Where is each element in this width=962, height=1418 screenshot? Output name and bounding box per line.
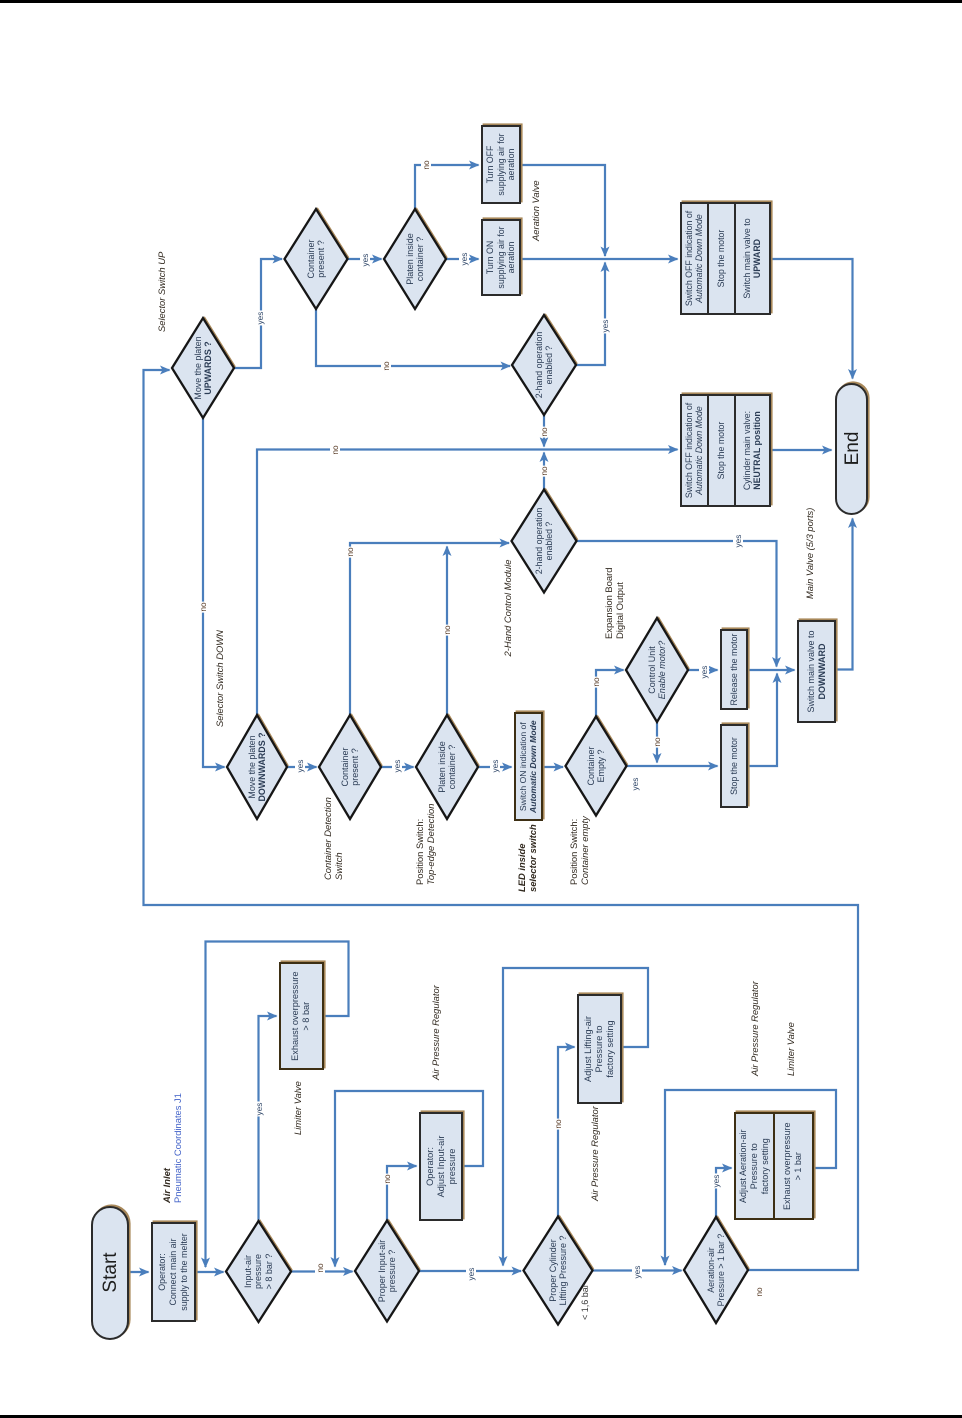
annotation: Air Pressure Regulator (input) — [430, 985, 441, 1080]
label: no ContainerEmpty to ControlUnit — [591, 676, 601, 687]
process: Turn OFF supplying air for aeration — [481, 125, 521, 204]
label: yes ContainerEmpty — [630, 777, 640, 792]
connector: Proper Input-air no to Adjust Input-air — [387, 1166, 417, 1221]
text of Container present 2 — [340, 715, 361, 819]
connector: Container present 1 no to 2-hand 1 — [316, 309, 510, 366]
label: no Proper Input-air — [382, 1173, 392, 1184]
annotation: Expansion Board Digital Output — [603, 568, 626, 639]
process group: Switch OFF / Stop / NEUTRAL — [680, 394, 771, 507]
connector: Stop output merging into downward junction — [748, 674, 777, 767]
connector: Container present 1 yes to Platen inside 1 — [348, 258, 382, 260]
process: Release the motor — [720, 629, 748, 710]
connector: Container Empty no to Control Unit — [596, 670, 624, 717]
text of Proper Cylinder diamond — [548, 1217, 569, 1325]
connector: Platen inside 2 yes to Switch ON indication — [478, 766, 512, 768]
connector: Platen inside 1 no to Turn OFF box — [415, 165, 479, 209]
annotation: < 1,6 bar — [580, 1284, 591, 1320]
connector: Container present 2 yes to Platen inside 2 — [381, 766, 414, 768]
label: no Container1 to 2hand1 — [381, 360, 391, 371]
text of DOWNWARDS diamond — [247, 715, 268, 819]
connector: Proper Cylinder yes down to Aeration-air — [593, 1269, 682, 1271]
process: Switch main valve to DOWNWARD — [797, 620, 836, 723]
process: Exhaust overpressure > 1 bar — [773, 1112, 814, 1220]
process: Start terminator — [91, 1206, 129, 1340]
text of Proper Input-air diamond — [377, 1221, 398, 1321]
annotation: Air Pressure Regulator (aeration) — [749, 981, 760, 1076]
label: yes UPWARDS to Container 1 — [255, 311, 265, 326]
decision: Container present ? (2) — [319, 713, 383, 819]
decision: Container present ? (1) — [285, 207, 350, 309]
process: Exhaust overpressure > 8 bar — [279, 962, 324, 1070]
decision: Control Unit Enable motor ? — [626, 616, 690, 722]
process group: Switch OFF / Stop / UPWARD — [680, 202, 771, 315]
process: Adjust Aeration-air Pressure to factory setting — [734, 1112, 775, 1220]
label: yes DOWNWARDS to Container2 — [295, 759, 305, 774]
connector: Proper Cylinder no to Adjust Lifting-air — [558, 1047, 575, 1217]
connector: Turn OFF output merging into valve line — [521, 165, 605, 256]
annotation: 2-Hand Control Module — [502, 560, 513, 657]
connector: UPWARDS no to DOWNWARDS diamond — [203, 418, 225, 767]
connector: Adjust Lifting-air feedback to main line — [503, 968, 648, 1266]
connector: Input-air yes to Exhaust overpressure 8bar — [259, 1016, 277, 1221]
annotation: Air Inlet / Pneumatic Coordinates J1 — [161, 1093, 184, 1203]
label: no 2hand1 — [539, 426, 549, 437]
connector: Container present 2 no to 2-hand 2 — [350, 543, 509, 715]
bottom rule — [0, 1415, 962, 1418]
connector: 2-hand 1 no merging into neutral line — [543, 415, 545, 447]
annotation: Main Valve (5/3 ports) — [804, 508, 815, 599]
connector: Input-air no down to Proper Input-air — [291, 1270, 353, 1272]
connector: 2-hand 2 yes merging into downward junction — [577, 541, 777, 667]
connector: Platen inside 2 no merging into 2-hand line — [446, 547, 448, 716]
label: no Platen2 — [442, 624, 452, 635]
annotation: Selector Switch UP — [156, 252, 167, 332]
label: yes Platen1 to TurnON — [459, 252, 469, 267]
annotation: Limiter Valve (input) — [292, 1081, 303, 1135]
connector: DOWNWARDS no to NEUTRAL action box — [257, 450, 678, 716]
text of UPWARDS diamond — [193, 318, 214, 418]
annotation: Position Switch Top-edge — [414, 804, 437, 885]
text of Container present 1 — [306, 209, 327, 309]
connector: Adjust Input-air feedback to main line — [335, 1091, 483, 1267]
connector: DOWNWARD output to End — [836, 519, 853, 670]
text of Platen inside 1 — [405, 209, 426, 309]
connector: Control Unit yes to Release the motor — [688, 669, 718, 671]
text of End — [843, 382, 863, 515]
text of 2-hand 2 — [534, 490, 555, 593]
label: yes 2hand1 — [600, 319, 610, 334]
label: no ControlUnit — [652, 736, 662, 747]
text of Container Empty — [586, 717, 607, 816]
label: no UPWARDS to DOWNWARDS — [198, 601, 208, 612]
connector: Platen inside 1 yes to Turn ON box — [446, 258, 479, 260]
process: Operator Adjust Input-air pressure — [419, 1112, 463, 1221]
connector: Aeration-air yes to Adjust Aeration-air — [716, 1168, 732, 1217]
label: yes Input-air to Exhaust — [254, 1102, 264, 1117]
annotation: Air Pressure Regulator (lifting) — [589, 1106, 600, 1201]
connector: 2-hand 2 no merging into neutral line — [543, 453, 545, 490]
connector: Exhaust 1bar feedback to main line — [665, 1090, 836, 1265]
label: yes Platen2 to SwitchON — [490, 759, 500, 774]
label: no below Input-air — [315, 1262, 325, 1273]
label: yes Container1 to Platen1 — [360, 253, 370, 268]
process: End terminator — [835, 383, 868, 515]
connector: Switch ON indication to Container Empty — [543, 766, 563, 768]
connector: Control Unit no merging into stop line — [656, 722, 658, 763]
process: Operator connect main air supply — [151, 1222, 196, 1322]
connector: DOWNWARDS yes to Container present 2 — [287, 766, 317, 768]
decision: Move the platen DOWNWARDS ? — [227, 713, 289, 819]
label: yes below Proper Cylinder — [632, 1265, 642, 1280]
text of Control Unit — [647, 618, 668, 722]
label: no Container2 to 2hand2 — [345, 546, 355, 557]
decision: 2-hand operation enabled ? (1) — [512, 313, 578, 415]
label: yes 2hand2 — [733, 534, 743, 549]
label: yes ControlUnit — [699, 665, 709, 680]
annotation: Aeration Valve — [530, 180, 541, 241]
connector: Turn ON output to UPWARD action box — [521, 258, 678, 260]
annotation: LED inside selector switch — [516, 824, 539, 892]
connector: Container Empty yes to Stop the motor — [627, 765, 718, 767]
label: no Platen1 to TurnOFF — [421, 159, 431, 170]
label: yes Container2 to Platen2 — [392, 759, 402, 774]
decision: 2-hand operation enabled ? (2) — [512, 488, 579, 593]
annotation: Container Detection Switch — [322, 797, 345, 880]
process: Stop the motor — [720, 724, 748, 808]
connector: NEUTRAL output to End — [771, 449, 832, 451]
label: no 2hand2 — [539, 465, 549, 476]
text of Start — [101, 1205, 121, 1340]
process: Adjust Lifting-air Pressure to factory setting — [577, 994, 622, 1104]
label: no on neutral line — [330, 444, 340, 455]
decision: Move the platen UPWARDS ? — [172, 316, 236, 418]
decision: Input-air pressure > 8 bar ? — [226, 1219, 293, 1322]
text of 2-hand 1 — [534, 315, 555, 415]
process: Turn ON supplying air for aeration — [481, 219, 521, 296]
annotation: Position Switch Container empty — [568, 816, 591, 885]
connector: Release output to DOWNWARD action box — [748, 669, 795, 671]
top rule — [0, 0, 962, 3]
label: no below Aeration-air — [754, 1286, 764, 1297]
decision: Proper Input-air pressure ? — [355, 1219, 421, 1322]
label: no Proper Cylinder — [553, 1118, 563, 1129]
decision: Container Empty ? — [566, 715, 629, 816]
decision: Platen inside container ? (1) — [384, 207, 448, 309]
label: yes below Proper Input-air — [466, 1267, 476, 1282]
connector: Operator to Input-air diamond — [196, 1271, 224, 1273]
connector: 2-hand 1 yes merging into valve line — [576, 263, 605, 366]
connector: Start to Operator — [130, 1271, 149, 1273]
connector: Proper Input-air yes down to Proper Cylinder — [419, 1270, 521, 1272]
connector: UPWARD output to End — [771, 259, 853, 379]
text of Aeration-air diamond — [706, 1217, 727, 1323]
label: yes Aeration-air — [711, 1174, 721, 1189]
connector: Exhaust 8bar feedback to main line — [206, 942, 349, 1268]
process: Switch ON indication of Automatic Down Mode — [514, 712, 543, 821]
connector: Aeration-air no long path to UPWARDS diamond — [144, 370, 859, 1270]
annotation: Selector Switch DOWN — [214, 630, 225, 727]
decision: Proper Cylinder Lifting Pressure ? — [524, 1215, 595, 1325]
text of Platen inside 2 — [437, 715, 458, 819]
annotation: Limiter Valve (aeration) — [785, 1022, 796, 1076]
text of Input-air diamond — [243, 1222, 275, 1322]
connector: UPWARDS yes to Container present 1 — [234, 259, 282, 368]
decision: Platen inside container ? (2) — [416, 713, 480, 819]
decision: Aeration-air Pressure > 1 bar ? — [684, 1215, 750, 1323]
